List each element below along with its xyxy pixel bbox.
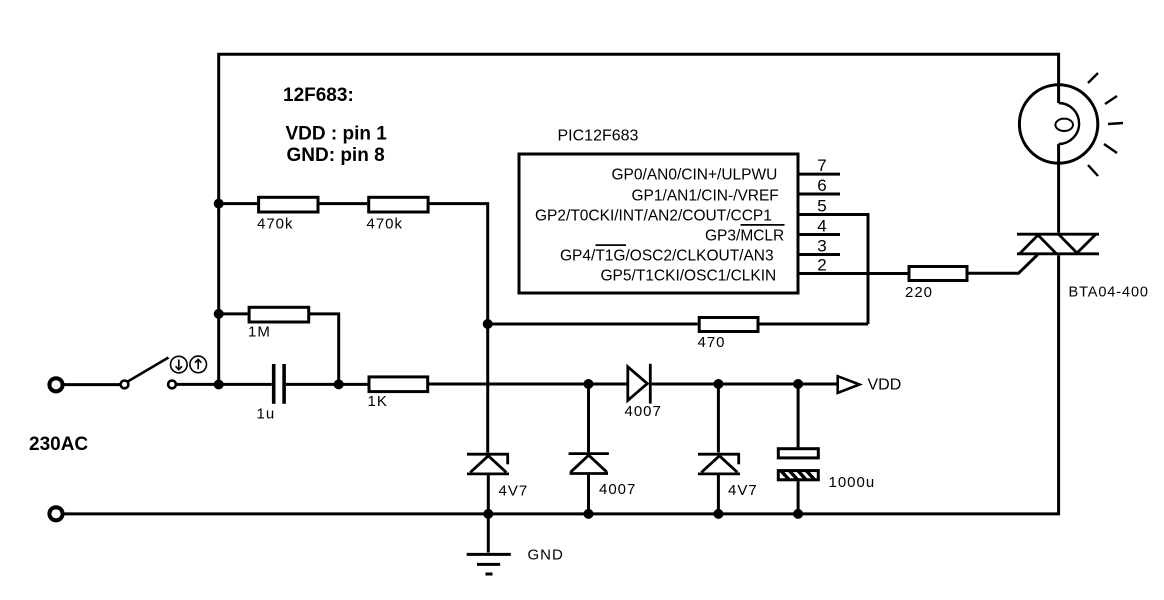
ground symbol <box>467 554 511 574</box>
svg-text:470k: 470k <box>257 216 294 233</box>
wire: 1M line left segment <box>219 312 248 315</box>
wire: left vertical rail + top rail + right drop into lamp <box>219 54 1059 385</box>
wire: triac MT1 down, bottom rail to left terminal <box>65 255 1059 514</box>
lamp ray lower <box>1104 144 1117 153</box>
capacitor C2 1000u bottom plate (hatched) <box>778 471 818 480</box>
svg-text:GP1/AN1/CIN-/VREF: GP1/AN1/CIN-/VREF <box>632 187 779 204</box>
svg-text:GP3/MCLR: GP3/MCLR <box>705 228 784 245</box>
junction dot bottom rail x=488.3 <box>483 509 493 519</box>
svg-text:GP5/T1CKI/OSC1/CLKIN: GP5/T1CKI/OSC1/CLKIN <box>601 268 777 285</box>
resistor R1 470k <box>259 197 318 212</box>
lamp ray middle <box>1108 123 1123 124</box>
svg-text:4: 4 <box>817 216 826 235</box>
switch direction symbol: circled up arrow <box>190 356 207 373</box>
wire: lamp bottom to triac MT2 <box>1057 144 1060 233</box>
svg-text:5: 5 <box>817 196 826 215</box>
terminal J1 (230AC live) <box>49 378 62 391</box>
pin 3 stub <box>799 253 840 256</box>
node B junction dot <box>334 379 344 389</box>
pin 5 stub + wire to 470 line <box>799 215 868 325</box>
svg-text:470: 470 <box>698 334 726 351</box>
svg-text:PIC12F683: PIC12F683 <box>558 127 639 144</box>
svg-text:470k: 470k <box>367 216 404 233</box>
svg-text:1000u: 1000u <box>829 474 876 491</box>
svg-text:4V7: 4V7 <box>728 482 758 499</box>
svg-text:220: 220 <box>905 284 933 301</box>
svg-text:4V7: 4V7 <box>499 482 529 499</box>
pin 6 stub <box>799 193 840 196</box>
svg-text:6: 6 <box>817 176 826 195</box>
svg-text:VDD: VDD <box>868 377 902 394</box>
capacitor C2 1000u top plate <box>778 449 818 458</box>
wire: R4 to diode D1 anode (VDD line) <box>428 383 628 386</box>
svg-text:2: 2 <box>817 255 826 274</box>
svg-text:BTA04-400: BTA04-400 <box>1069 285 1149 301</box>
zener ZD2 4V7 <box>698 454 740 474</box>
svg-text:12F683:: 12F683: <box>283 85 354 106</box>
node A junction dot (x=218.7 y=384.5) <box>214 380 224 390</box>
wire: vertical x=718.4 (ZD2) <box>717 384 720 514</box>
svg-text:3: 3 <box>817 236 826 255</box>
triac Q1 BTA04-400 <box>1017 234 1099 254</box>
junction dot VDD line x=718.4 <box>713 379 723 389</box>
svg-text:4007: 4007 <box>599 481 636 498</box>
svg-text:230AC: 230AC <box>29 434 88 455</box>
junction dot bottom rail x=588.5 <box>584 509 594 519</box>
lamp filament loop <box>1055 103 1079 144</box>
diode D1 1N4007 (horizontal) <box>628 364 651 404</box>
overline MCLR <box>741 224 785 226</box>
VDD arrow <box>838 376 860 393</box>
wire: ZD1 to bottom rail and GND stub <box>487 474 490 553</box>
svg-text:4007: 4007 <box>625 403 662 420</box>
pin 7 stub <box>799 173 840 176</box>
wire: terminal J1 to switch <box>65 383 121 386</box>
svg-text:1M: 1M <box>248 324 271 341</box>
junction dot VDD line x=798.1 <box>793 379 803 389</box>
resistor R3 1M <box>249 307 309 322</box>
resistor R4 1K <box>369 377 428 392</box>
lamp ray bottom <box>1088 165 1098 176</box>
wire: C1 to R4 <box>286 383 368 386</box>
lamp ray upper <box>1105 96 1117 104</box>
pin 4 stub <box>799 233 840 236</box>
switch direction symbol: circled down arrow <box>171 356 188 373</box>
svg-text:GP2/T0CKI/INT/AN2/COUT/CCP1: GP2/T0CKI/INT/AN2/COUT/CCP1 <box>535 208 772 225</box>
junction dot at 470k line <box>214 199 224 209</box>
resistor R2 470k <box>369 197 428 212</box>
junction dot bottom rail x=798.1 <box>793 509 803 519</box>
overline T1G <box>596 244 627 246</box>
junction dot VDD line x=588.5 <box>584 379 594 389</box>
wire: vertical x=798.1 (C2) <box>797 384 800 514</box>
junction dot at 1M line <box>214 309 224 319</box>
svg-text:1u: 1u <box>257 406 276 423</box>
terminal J2 (230AC neutral) <box>49 507 62 520</box>
switch S1 <box>121 358 176 389</box>
capacitor C1 1u plates <box>274 364 284 404</box>
lamp ray top <box>1088 73 1098 83</box>
pin 2 stub / wire to gate resistor <box>799 272 908 275</box>
svg-text:GND: GND <box>528 547 564 564</box>
svg-text:GP0/AN0/CIN+/ULPWU: GP0/AN0/CIN+/ULPWU <box>612 167 778 184</box>
resistor R6 220 <box>909 267 967 281</box>
diode D2 1N4007 (vertical) <box>569 454 609 474</box>
wire: D1 cathode to VDD arrow <box>652 383 838 386</box>
wire: vertical x=487.7 from 470-line junction down to zener ZD1 <box>486 324 489 453</box>
junction dot bottom rail x=718.4 <box>713 509 723 519</box>
wire: 1M right, corner down to node B <box>309 314 339 385</box>
wire: R2 right, corner down to 470 line <box>428 204 488 324</box>
svg-text:7: 7 <box>817 156 826 175</box>
svg-text:VDD : pin 1: VDD : pin 1 <box>286 124 388 145</box>
junction dot 470 line / vertical <box>483 319 493 329</box>
IC U1 PIC12F683 box <box>519 154 798 293</box>
lamp L1 bulb circle <box>1019 85 1097 163</box>
wire: between 470k resistors <box>320 202 368 205</box>
svg-text:GND: pin 8: GND: pin 8 <box>287 145 385 166</box>
wire: 470k line left segment <box>219 202 258 205</box>
wire: vertical x=588.5 (D2) <box>587 384 590 514</box>
wire: R6 to triac gate <box>967 255 1038 274</box>
wire: switch to node A <box>176 383 272 386</box>
wire: 470 line from pin5 drop to junction <box>488 323 868 326</box>
resistor R5 470 <box>699 318 758 332</box>
svg-text:1K: 1K <box>368 393 388 410</box>
zener ZD1 4V7 <box>467 454 509 474</box>
svg-text:GP4/T1G/OSC2/CLKOUT/AN3: GP4/T1G/OSC2/CLKOUT/AN3 <box>560 248 774 265</box>
